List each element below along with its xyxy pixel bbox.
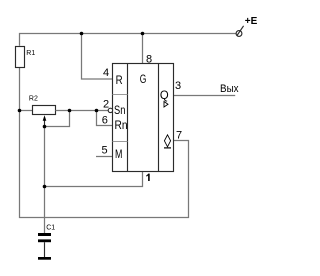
svg-text:Rn: Rn — [115, 118, 128, 132]
pin 1 number label — [146, 174, 149, 181]
svg-text:C1: C1 — [46, 224, 55, 231]
svg-text:R2: R2 — [29, 96, 38, 103]
resistor R2 — [33, 106, 56, 115]
wire pin 4 from top rail — [82, 34, 113, 80]
capacitor C1 — [38, 233, 51, 236]
wire wiper link to R2 right node — [45, 111, 70, 127]
svg-text:+E: +E — [245, 16, 258, 27]
junction at pin 4 riser on +E rail — [80, 32, 84, 36]
pin 7 open-collector output symbol (diamond with bar) — [164, 135, 170, 147]
svg-text:Q: Q — [160, 88, 169, 102]
junction wiper node — [43, 125, 47, 129]
wire R2 right to pin 2 circle — [56, 110, 109, 112]
svg-text:7: 7 — [176, 129, 182, 141]
junction R2 left on left rail — [18, 109, 22, 113]
wire pin 6 — [97, 111, 113, 126]
timer IC U1 body — [113, 64, 174, 172]
svg-text:R1: R1 — [26, 50, 35, 57]
svg-text:2: 2 — [103, 99, 109, 111]
junction at pin 8 riser on +E rail — [141, 32, 145, 36]
svg-text:4: 4 — [103, 67, 109, 79]
svg-text:Sn: Sn — [114, 103, 125, 117]
pin 2 inverting input circle — [108, 108, 112, 112]
wire pin 5 stub — [96, 156, 113, 158]
junction pin 1 wire on C1 branch — [43, 185, 47, 189]
svg-text:M: M — [115, 147, 122, 161]
wire node down to C1 — [44, 127, 46, 234]
ground — [38, 257, 51, 260]
resistor R1 — [16, 47, 25, 68]
wire left rail / bottom rail / pin 7 loop — [20, 67, 189, 217]
svg-text:R: R — [116, 73, 123, 87]
wire pin 1 link — [45, 172, 143, 187]
svg-text:6: 6 — [102, 114, 108, 126]
svg-text:3: 3 — [175, 80, 181, 92]
svg-text:Вых: Вых — [220, 83, 239, 95]
Q output amplifier triangle symbol — [164, 102, 168, 108]
wire R2 left — [20, 110, 33, 112]
wire C1 to ground — [44, 242, 46, 257]
svg-text:5: 5 — [102, 144, 108, 156]
svg-text:8: 8 — [146, 53, 152, 65]
wire pin 3 output — [174, 95, 236, 97]
power terminal +E — [236, 31, 242, 37]
wire top rail from R1 top to +E terminal — [20, 34, 237, 46]
junction wiper link on R2 right wire — [68, 109, 72, 113]
wire pin 8 from top rail — [142, 34, 144, 64]
svg-text:G: G — [140, 72, 147, 86]
R2 wiper arrow — [44, 120, 46, 127]
junction pin 6 branch — [95, 109, 99, 113]
